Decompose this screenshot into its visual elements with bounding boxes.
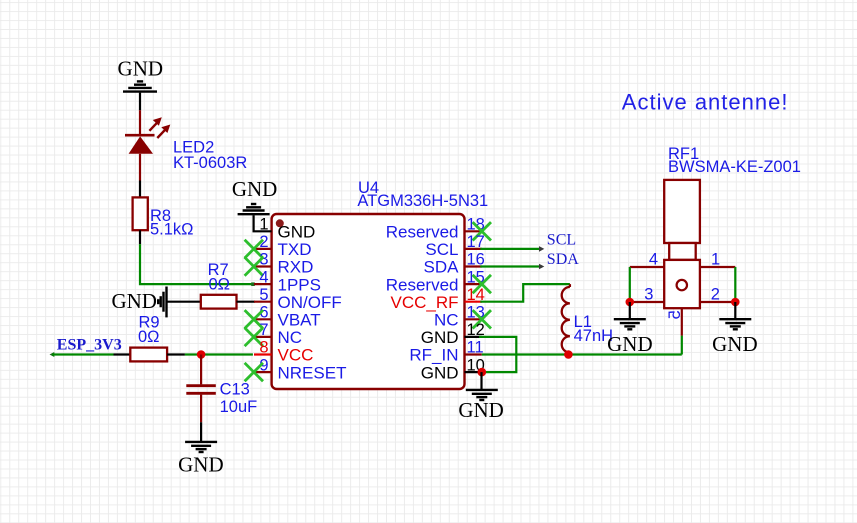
svg-text:SCL: SCL: [425, 240, 458, 259]
LED LED2 (KT-0603R): [125, 134, 155, 137]
wire GND to U4 pin 1: [254, 215, 272, 231]
U4 pin 15 Reserved (no-connect X): [465, 283, 482, 285]
svg-text:GND: GND: [458, 398, 504, 422]
svg-text:1: 1: [259, 216, 268, 234]
svg-text:0Ω: 0Ω: [138, 328, 160, 346]
svg-text:ATGM336H-5N31: ATGM336H-5N31: [357, 192, 488, 210]
RF1 pin 5: [681, 308, 683, 335]
svg-text:GND: GND: [178, 453, 224, 477]
U4 pin 2 TXD (no-connect X): [254, 248, 272, 250]
wire pin 14 VCC_RF to L1: [480, 284, 570, 302]
power symbol GND (left of RF1): [629, 302, 631, 318]
svg-text:ON/OFF: ON/OFF: [278, 293, 342, 312]
U4 pin 10 GND: [465, 371, 482, 373]
RF1 pin 1: [700, 266, 735, 268]
wire C13 to GND: [200, 395, 202, 423]
svg-text:NC: NC: [434, 311, 459, 330]
svg-text:RF_IN: RF_IN: [409, 346, 458, 365]
U4 pin 8 VCC: [254, 353, 272, 355]
wire R7 to pin 5 (ON/OFF) of U4: [237, 301, 255, 303]
svg-text:8: 8: [259, 339, 268, 357]
U4 pin 17 SCL: [465, 248, 482, 250]
U4 pin 7 NC (no-connect X): [254, 336, 272, 338]
junction node at U4 pin 10: [478, 368, 487, 377]
svg-text:0Ω: 0Ω: [208, 276, 230, 294]
inductor L1 coil: [569, 284, 571, 287]
wire ESP_3V3 to R9: [52, 353, 114, 355]
svg-text:1: 1: [711, 251, 720, 269]
power symbol GND (below C13): [185, 441, 217, 443]
U4 pin 18 Reserved (no-connect X): [465, 230, 482, 232]
wire GND to R7: [167, 301, 201, 303]
svg-text:SCL: SCL: [547, 232, 576, 249]
U4 pin 5 ON/OFF: [254, 301, 272, 303]
wire R9 to pin 8 (VCC) of U4: [167, 353, 185, 355]
svg-text:2: 2: [711, 285, 720, 303]
RF1 pin 2: [700, 301, 735, 303]
wire RF1 pin 1 to pin 2 node: [734, 267, 736, 302]
svg-text:GND: GND: [278, 223, 316, 242]
svg-text:1PPS: 1PPS: [278, 275, 321, 294]
svg-text:KT-0603R: KT-0603R: [173, 154, 247, 172]
U4 pin 11 RF_IN: [465, 353, 482, 355]
U4 pin 14 VCC_RF: [465, 301, 482, 303]
svg-text:NC: NC: [278, 328, 303, 347]
svg-text:GND: GND: [712, 332, 758, 356]
junction node at R9/C13/VCC: [197, 350, 206, 359]
RF1 pin 4: [630, 266, 664, 268]
svg-text:GND: GND: [421, 363, 459, 382]
svg-text:3: 3: [644, 285, 653, 303]
capacitor C13 body: [186, 384, 216, 387]
svg-text:TXD: TXD: [278, 240, 312, 259]
svg-text:RXD: RXD: [278, 258, 314, 277]
svg-text:NRESET: NRESET: [278, 363, 347, 382]
svg-text:VBAT: VBAT: [278, 311, 321, 330]
IC U4 body (ATGM336H-5N31): [272, 214, 465, 389]
junction node at L1 / RF_IN: [564, 350, 573, 359]
wire pin 11 RF_IN to RF1 pin 5: [482, 353, 682, 355]
svg-text:11: 11: [467, 339, 484, 357]
wire pin 16 to SDA port: [480, 265, 542, 267]
wire pin 12 GND to pin 10 GND: [479, 337, 516, 372]
RF1 pin 3: [630, 301, 664, 303]
power symbol GND (right of RF1): [734, 302, 736, 318]
svg-text:GND: GND: [607, 332, 653, 356]
svg-text:VCC: VCC: [278, 346, 314, 365]
resistor R9 body: [130, 348, 167, 362]
U4 pin 6 VBAT (no-connect X): [254, 318, 272, 320]
svg-text:Reserved: Reserved: [386, 275, 459, 294]
junction node at RF1 pin 3: [626, 298, 635, 307]
svg-text:10uF: 10uF: [220, 398, 258, 416]
U4 pin 12 GND: [465, 336, 482, 338]
wire LED2 cathode to R8: [139, 154, 141, 181]
U4 pin 3 RXD (no-connect X): [254, 265, 272, 267]
antenna connector RF1 body (BWSMA-KE-Z001): [664, 180, 700, 243]
svg-text:C13: C13: [220, 381, 250, 399]
svg-text:5: 5: [666, 310, 684, 319]
svg-text:GND: GND: [421, 328, 459, 347]
wire GND to LED2 anode: [139, 93, 141, 111]
wire junction to C13: [200, 355, 202, 385]
junction node at RF1 pin 2: [731, 298, 740, 307]
U4 pin 4 1PPS: [254, 283, 272, 285]
wire pin 17 to SCL port: [480, 248, 542, 250]
svg-text:GND: GND: [232, 177, 278, 201]
svg-text:GND: GND: [111, 289, 157, 313]
svg-text:4: 4: [259, 268, 268, 286]
resistor R7 body: [201, 295, 237, 309]
U4 pin 9 NRESET (no-connect X): [254, 371, 272, 373]
svg-text:SDA: SDA: [424, 258, 460, 277]
svg-text:BWSMA-KE-Z001: BWSMA-KE-Z001: [668, 158, 801, 176]
U4 pin 13 NC (no-connect X): [465, 318, 482, 320]
wire R8 to pin 4 (1PPS) of U4: [139, 230, 141, 244]
svg-text:SDA: SDA: [547, 251, 579, 268]
svg-text:ESP_3V3: ESP_3V3: [57, 336, 122, 353]
svg-text:Active antenne!: Active antenne!: [622, 90, 789, 115]
svg-text:VCC_RF: VCC_RF: [390, 293, 458, 312]
resistor R8 body: [133, 197, 148, 230]
wire RF1 pin 4 to pin 3 node: [629, 267, 631, 302]
svg-text:4: 4: [649, 251, 658, 269]
power symbol GND (below U4 pin 10): [480, 372, 482, 389]
svg-text:5: 5: [259, 286, 268, 304]
U4 pin 16 SDA: [465, 265, 482, 267]
svg-text:GND: GND: [118, 57, 164, 81]
svg-text:Reserved: Reserved: [386, 223, 459, 242]
svg-text:5.1kΩ: 5.1kΩ: [150, 221, 194, 239]
